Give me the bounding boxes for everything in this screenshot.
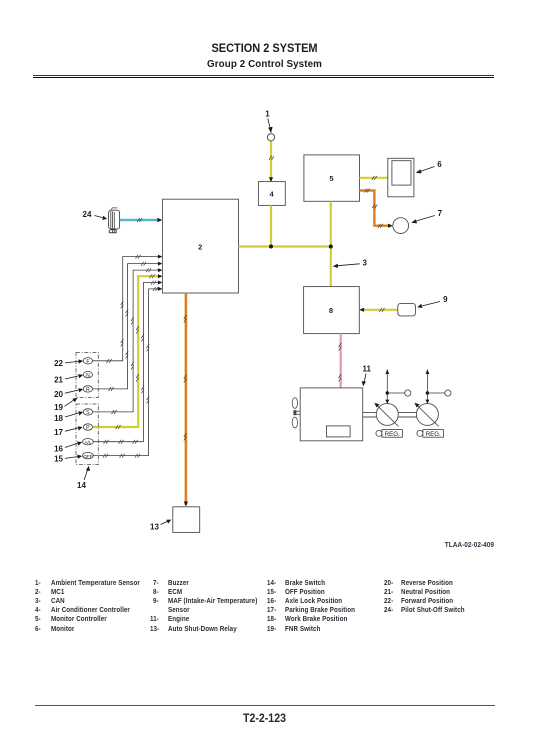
wire: box 5 to box 8 (yellow vertical)	[330, 201, 332, 286]
label 6 with leader arrow	[416, 160, 442, 173]
svg-text:P: P	[86, 425, 90, 431]
footer page number	[37, 712, 492, 724]
legend column 1	[35, 578, 41, 587]
box 8: ECM	[304, 287, 360, 334]
label 16 with leader arrow	[54, 442, 82, 454]
svg-text:14: 14	[77, 481, 86, 490]
ambient temperature sensor circle (1)	[267, 134, 274, 141]
header title	[26, 41, 502, 55]
wire: OFF contact to box 2	[93, 287, 162, 458]
wire: F contact to box 2	[92, 255, 162, 363]
label 24 with leader arrow	[83, 210, 108, 220]
svg-text:2: 2	[198, 242, 202, 251]
wire: S contact to box 2	[92, 268, 162, 414]
label 9 with leader arrow	[417, 295, 448, 308]
wire: box 5 to monitor 6 (yellow)	[360, 176, 388, 180]
pump 1 regulator REG	[376, 430, 403, 438]
svg-text:F: F	[86, 359, 89, 365]
legend column 3	[267, 578, 276, 587]
label 22 with leader arrow	[54, 359, 83, 368]
engine fan	[292, 398, 300, 428]
brake switch dashed enclosure (14)	[76, 404, 98, 465]
box 4: air conditioner controller	[258, 182, 285, 206]
label 19 with leader arrow	[54, 398, 77, 412]
wire: A/L contact to box 2	[93, 281, 162, 444]
svg-text:16: 16	[54, 444, 63, 453]
svg-text:13: 13	[150, 523, 159, 532]
monitor 6	[388, 158, 414, 197]
svg-text:19: 19	[54, 403, 63, 412]
svg-text:OFF: OFF	[84, 454, 93, 459]
wire: box 8 to engine (pink)	[339, 334, 343, 426]
wire: box 4 to CAN bus (yellow)	[270, 205, 272, 246]
box 5: monitor controller	[304, 155, 360, 201]
svg-text:8: 8	[329, 306, 333, 315]
wire: R contact to box 2	[92, 262, 162, 391]
label 13 with leader arrow	[150, 520, 171, 532]
buzzer 7 circle	[393, 218, 409, 234]
legend column 2	[153, 578, 159, 587]
wire: sensor 1 to box 4 (yellow)	[269, 141, 274, 182]
svg-text:18: 18	[54, 414, 63, 423]
pump 1 control line and pilot port	[385, 369, 411, 404]
svg-text:7: 7	[438, 209, 443, 218]
svg-text:R: R	[86, 387, 90, 393]
svg-text:17: 17	[54, 428, 63, 437]
label 14 with leader arrow	[77, 466, 90, 490]
svg-text:REG.: REG.	[385, 431, 400, 438]
header subtitle	[0, 59, 529, 70]
svg-text:5: 5	[329, 174, 333, 183]
contact R (20)	[83, 386, 92, 393]
footer rule	[35, 705, 495, 706]
contact F (22)	[83, 358, 92, 365]
pilot shut-off switch 24 symbol	[109, 208, 120, 233]
contact S (18)	[83, 409, 92, 416]
svg-text:N: N	[86, 373, 90, 379]
contact A/L (16)	[83, 439, 94, 445]
wire: box 5 to buzzer 7 (orange)	[360, 189, 393, 228]
svg-text:S: S	[86, 410, 90, 416]
header rule thick	[33, 77, 494, 79]
wire: P contact to box 2 (yellow)	[93, 274, 163, 429]
svg-text:24: 24	[83, 210, 92, 219]
svg-text:22: 22	[54, 359, 63, 368]
label 15 with leader arrow	[54, 454, 82, 463]
svg-text:REG.: REG.	[426, 431, 441, 438]
figure code TLAA-02-02-409	[401, 542, 494, 549]
shaft pump 1 to pump 2	[398, 413, 416, 417]
svg-text:20: 20	[54, 390, 63, 399]
MAF sensor 9	[398, 303, 416, 316]
label 7 with leader arrow	[411, 209, 442, 223]
svg-text:11: 11	[362, 365, 371, 374]
svg-text:21: 21	[54, 375, 63, 384]
label 20 with leader arrow	[54, 388, 83, 399]
svg-text:1: 1	[265, 110, 270, 119]
junction node at box4 drop	[269, 245, 273, 249]
label 3 (CAN) with leader arrow	[333, 258, 368, 268]
label 18 with leader arrow	[54, 411, 83, 423]
wire: switch 24 to box 2 (blue)	[120, 218, 162, 222]
label 17 with leader arrow	[54, 426, 83, 437]
svg-text:A/L: A/L	[84, 440, 91, 445]
label 11 with leader arrow	[362, 365, 372, 387]
pump 2	[414, 403, 438, 427]
svg-text:9: 9	[443, 295, 448, 304]
svg-text:6: 6	[437, 160, 442, 169]
shaft engine to pump 1	[363, 413, 377, 417]
contact N (21)	[83, 371, 92, 378]
pump 1	[374, 403, 398, 427]
label 21 with leader arrow	[54, 374, 83, 384]
engine box 11	[300, 388, 363, 441]
svg-text:15: 15	[54, 454, 63, 463]
FNR switch dashed enclosure (19)	[76, 353, 98, 398]
junction node at bus corner	[329, 245, 333, 249]
box 2: MC1	[162, 199, 238, 293]
auto shut-down relay box 13	[173, 507, 200, 533]
header rule thin	[33, 75, 494, 76]
legend column 4	[384, 578, 393, 587]
CAN bus: box 2 to junction (yellow)	[239, 245, 331, 247]
label 1 with leader arrow	[265, 110, 272, 134]
svg-text:3: 3	[362, 258, 367, 267]
pump 2 control line and pilot port	[425, 369, 451, 404]
wire: box 2 to relay 13 (orange)	[184, 293, 188, 506]
contact P (17)	[83, 424, 92, 431]
pump 2 regulator REG	[417, 430, 444, 438]
contact OFF (15)	[83, 452, 94, 458]
wire: MAF sensor 9 to box 8 (yellow)	[359, 308, 398, 312]
